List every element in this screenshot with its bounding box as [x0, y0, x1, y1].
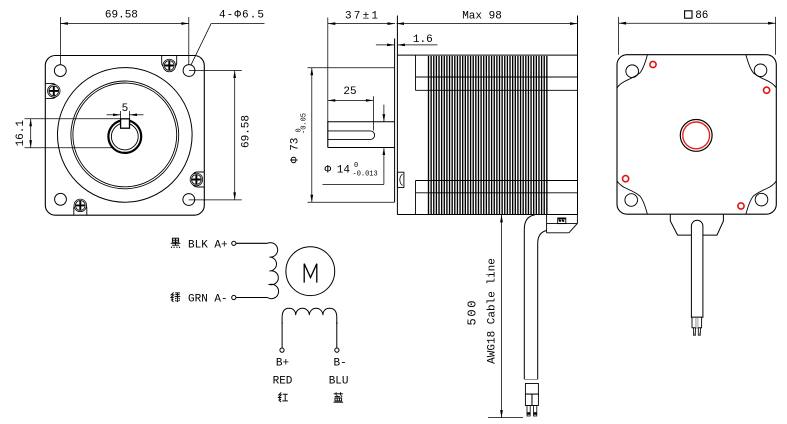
- back view corner ear top-right: [746, 55, 776, 88]
- back view cable: [691, 220, 703, 317]
- dimension 69.58 horizontal: [59, 17, 61, 65]
- mounting hole bottom-right: [183, 194, 195, 206]
- svg-text:AWG18 Cable line: AWG18 Cable line: [487, 258, 499, 364]
- motor circle M: [286, 247, 335, 296]
- back view pins: [693, 328, 695, 335]
- back view center boss circle: [680, 119, 712, 151]
- svg-text:Φ: Φ: [325, 164, 332, 176]
- back view outline: [617, 55, 776, 215]
- side view body outline: [397, 54, 577, 56]
- dimension 69.58 vertical: [189, 70, 242, 72]
- mounting hole top-right: [183, 65, 195, 77]
- rear cable gland side view: [546, 215, 548, 233]
- svg-text:16.1: 16.1: [15, 120, 27, 147]
- screw top: [162, 56, 177, 72]
- svg-text:69.58: 69.58: [240, 115, 252, 148]
- front cap step lines: [415, 55, 417, 90]
- back view corner ear bottom-right: [746, 181, 776, 214]
- svg-text:Φ: Φ: [290, 156, 302, 163]
- svg-text:-0.05: -0.05: [301, 113, 309, 134]
- svg-text:500: 500: [466, 301, 480, 326]
- cable side view: [524, 215, 535, 380]
- front view pilot circle: [58, 68, 193, 203]
- red screw hole top-left: [650, 61, 656, 67]
- red screw hole bottom-left: [623, 176, 629, 182]
- terminal B minus: [335, 348, 339, 352]
- keyway: [121, 119, 130, 128]
- dimension 1.6: [376, 44, 395, 46]
- svg-text:86: 86: [695, 10, 708, 22]
- svg-text:14: 14: [337, 164, 351, 176]
- dimension 5 keyway width: [120, 111, 122, 119]
- svg-text:Max 98: Max 98: [462, 10, 502, 22]
- wire B plus: [281, 322, 283, 348]
- dimension 25 keyway length: [372, 96, 374, 130]
- terminal B plus: [280, 348, 284, 352]
- svg-text:5: 5: [122, 103, 129, 115]
- screw left: [45, 83, 60, 98]
- dimension Max 98: [397, 23, 578, 25]
- flange face line: [396, 16, 398, 215]
- cable pins side view: [527, 406, 530, 417]
- back view corner ear bottom-left: [617, 181, 647, 214]
- svg-text:73: 73: [290, 138, 302, 151]
- svg-text:BLU: BLU: [329, 375, 349, 387]
- svg-text:37±1: 37±1: [345, 10, 378, 22]
- svg-text:69.58: 69.58: [105, 9, 138, 21]
- mounting hole top-left: [54, 65, 66, 77]
- svg-text:4-Φ6.5: 4-Φ6.5: [219, 10, 264, 22]
- red screw hole bottom-right: [738, 203, 744, 209]
- back view bolt hole top-right: [754, 64, 767, 77]
- mounting hole bottom-left: [55, 193, 67, 205]
- shaft inner circle: [111, 123, 138, 150]
- winding A coil: [268, 243, 279, 299]
- wire A minus: [236, 297, 268, 299]
- svg-text:BLK A+: BLK A+: [188, 239, 228, 251]
- screw right: [190, 172, 204, 187]
- back view crimp: [692, 317, 702, 328]
- dimension phi73: [308, 67, 395, 69]
- gland label box: [558, 218, 566, 224]
- back view bolt hole bottom-right: [755, 193, 768, 206]
- front view motor flange outline: [45, 56, 204, 216]
- front view bolt circle outer: [71, 81, 179, 189]
- svg-text:B+: B+: [276, 358, 289, 370]
- svg-text:B-: B-: [333, 358, 346, 370]
- screw bottom: [74, 199, 87, 215]
- dimension 500 cable length: [501, 215, 503, 418]
- side view shaft: [327, 18, 329, 122]
- grommet detail on flange: [397, 172, 404, 187]
- pilot boss face line: [394, 39, 396, 203]
- back view center red circle: [683, 122, 710, 149]
- front view bolt circle inner: [73, 83, 177, 187]
- label phase A minus: [171, 292, 181, 302]
- svg-text:GRN A-: GRN A-: [188, 293, 228, 305]
- wire B minus: [336, 322, 338, 348]
- terminal A plus: [232, 241, 236, 245]
- dimension 16.1: [25, 118, 121, 120]
- back view corner ear top-left: [617, 55, 647, 88]
- label phase A plus: [171, 238, 181, 248]
- svg-text:25: 25: [343, 86, 356, 98]
- terminal A minus: [232, 295, 236, 299]
- winding B coil: [282, 308, 337, 324]
- svg-text:0: 0: [354, 162, 358, 170]
- red screw hole top-right: [764, 87, 770, 93]
- dimension phi14: [383, 105, 385, 122]
- wire A plus: [236, 242, 268, 244]
- back view bolt hole bottom-left: [625, 194, 638, 207]
- svg-text:RED: RED: [273, 375, 293, 387]
- cable crimp terminal side view: [525, 384, 538, 395]
- back view cable gland: [670, 214, 723, 235]
- back view bolt hole top-left: [626, 65, 639, 78]
- shaft outer circle: [108, 120, 141, 153]
- side view keyway slot: [328, 131, 375, 140]
- svg-text:-0.013: -0.013: [353, 171, 378, 179]
- dimension 37 plus minus 1: [328, 23, 395, 25]
- svg-text:1.6: 1.6: [413, 34, 433, 46]
- cooling fins: [429, 56, 547, 215]
- dimension square 86: [618, 17, 620, 55]
